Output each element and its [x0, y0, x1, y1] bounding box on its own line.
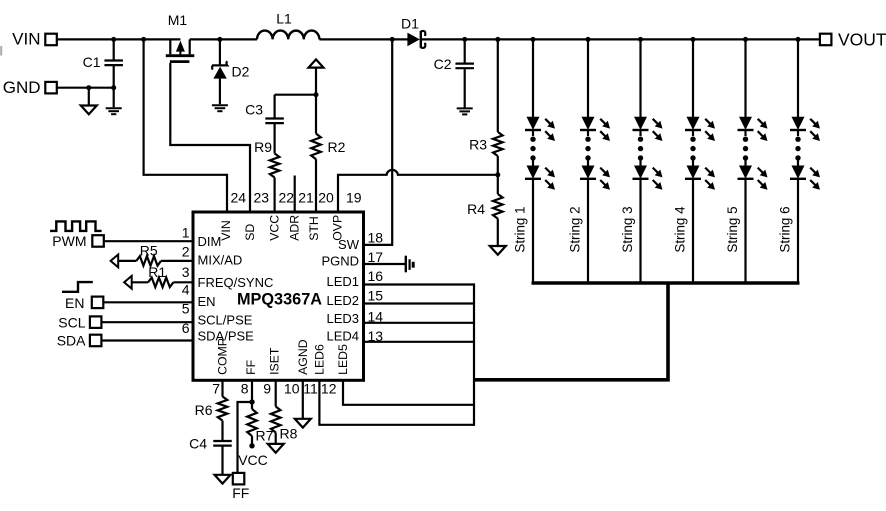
- svg-text:12: 12: [321, 380, 337, 396]
- svg-text:R5: R5: [140, 242, 158, 258]
- svg-text:String 5: String 5: [725, 206, 740, 252]
- LED string 1: [532, 39, 534, 117]
- svg-text:ADR: ADR: [288, 215, 302, 241]
- svg-text:LED5: LED5: [336, 344, 350, 375]
- ground: [295, 419, 311, 428]
- svg-text:String 6: String 6: [778, 206, 793, 252]
- svg-text:4: 4: [182, 282, 190, 298]
- svg-text:PWM: PWM: [52, 233, 86, 249]
- ground: [457, 107, 473, 109]
- wire LED2: [363, 302, 475, 304]
- svg-text:8: 8: [241, 380, 249, 396]
- wire LED3: [363, 322, 475, 324]
- svg-text:R2: R2: [328, 139, 346, 155]
- wire bus: [473, 283, 475, 426]
- wire: [103, 301, 193, 303]
- PWM waveform: [50, 221, 102, 231]
- wire: [251, 382, 253, 410]
- svg-text:D1: D1: [401, 16, 419, 32]
- svg-text:10: 10: [284, 380, 300, 396]
- svg-text:17: 17: [368, 249, 384, 265]
- LED string 3: [639, 39, 641, 117]
- op-amp U1 MPQ3367A: [193, 212, 364, 380]
- svg-text:R6: R6: [195, 402, 213, 418]
- svg-text:M1: M1: [168, 12, 188, 28]
- node: [111, 37, 116, 42]
- wire: [57, 87, 114, 89]
- svg-text:R9: R9: [254, 139, 272, 155]
- wire: [170, 63, 250, 211]
- node: [86, 85, 91, 90]
- node: [249, 443, 254, 448]
- svg-text:22: 22: [279, 190, 295, 206]
- svg-text:19: 19: [346, 190, 362, 206]
- wire LED6: [319, 382, 474, 425]
- port VOUT: [820, 34, 832, 46]
- svg-text:LED1: LED1: [326, 274, 359, 289]
- svg-text:18: 18: [368, 230, 384, 246]
- svg-text:FREQ/SYNC: FREQ/SYNC: [198, 275, 274, 290]
- svg-text:LED6: LED6: [312, 344, 326, 375]
- svg-text:3: 3: [182, 264, 190, 280]
- svg-text:R4: R4: [467, 201, 485, 217]
- svg-text:AGND: AGND: [296, 339, 310, 375]
- svg-text:L1: L1: [276, 11, 292, 27]
- svg-text:PGND: PGND: [321, 254, 359, 269]
- wire: [101, 321, 193, 323]
- wire: [161, 260, 193, 262]
- node: [314, 92, 319, 97]
- svg-text:C1: C1: [83, 54, 101, 70]
- svg-text:LED3: LED3: [326, 311, 359, 326]
- wire thick return: [474, 283, 668, 380]
- svg-text:23: 23: [254, 190, 270, 206]
- LED string 2: [587, 39, 589, 117]
- svg-text:String 2: String 2: [568, 206, 583, 252]
- svg-text:C4: C4: [189, 436, 207, 452]
- node: [691, 37, 696, 42]
- svg-text:String 3: String 3: [620, 206, 635, 252]
- port FF: [233, 473, 245, 485]
- svg-text:FF: FF: [244, 359, 258, 375]
- svg-text:1: 1: [182, 225, 190, 241]
- svg-text:String 1: String 1: [513, 206, 528, 252]
- svg-text:VCC: VCC: [267, 215, 281, 241]
- svg-text:D2: D2: [232, 64, 250, 80]
- svg-text:VIN: VIN: [12, 30, 40, 49]
- svg-text:2: 2: [182, 244, 190, 260]
- svg-text:SW: SW: [338, 237, 360, 252]
- LED string 6: [797, 39, 799, 117]
- svg-text:STH: STH: [307, 216, 321, 241]
- ground: [268, 444, 284, 453]
- svg-text:C3: C3: [245, 102, 263, 118]
- wire: [57, 38, 181, 40]
- svg-text:21: 21: [298, 190, 314, 206]
- wire: [132, 281, 148, 283]
- svg-text:MIX/AD: MIX/AD: [198, 253, 243, 268]
- wire: [238, 402, 253, 473]
- wire: [101, 339, 193, 341]
- svg-text:VCC: VCC: [238, 452, 268, 468]
- ground: [215, 475, 231, 484]
- svg-text:COMP: COMP: [216, 338, 230, 375]
- ground PGND: [405, 256, 407, 273]
- svg-text:SDA: SDA: [57, 333, 86, 349]
- wire: [422, 38, 820, 40]
- decor: [0, 46, 2, 56]
- wire LED4: [363, 341, 475, 343]
- ground: [106, 107, 122, 109]
- wire: [294, 176, 296, 211]
- wire: [118, 260, 136, 262]
- svg-text:15: 15: [368, 287, 384, 303]
- node: [217, 37, 222, 42]
- svg-text:24: 24: [231, 190, 247, 206]
- svg-text:LED4: LED4: [326, 329, 359, 344]
- wire: [363, 39, 393, 245]
- svg-text:GND: GND: [3, 78, 41, 97]
- node: [495, 37, 500, 42]
- svg-text:16: 16: [368, 268, 384, 284]
- LED string 4: [692, 39, 694, 117]
- wire: [319, 38, 408, 40]
- EN waveform: [62, 282, 93, 292]
- arrow: [111, 255, 119, 268]
- svg-text:7: 7: [212, 380, 220, 396]
- svg-text:R8: R8: [280, 426, 298, 442]
- wire: [338, 170, 498, 211]
- svg-text:MPQ3367A: MPQ3367A: [237, 290, 322, 308]
- svg-text:SD: SD: [243, 224, 257, 241]
- node: [586, 37, 591, 42]
- svg-text:DIM: DIM: [198, 234, 222, 249]
- node: [495, 172, 500, 177]
- node: [390, 37, 395, 42]
- wire: [104, 240, 193, 242]
- svg-text:C2: C2: [434, 56, 452, 72]
- svg-text:ISET: ISET: [267, 347, 281, 375]
- svg-text:11: 11: [303, 380, 318, 396]
- node: [249, 399, 254, 404]
- wire LED5: [343, 382, 474, 405]
- arrow: [124, 276, 132, 289]
- arrow up: [315, 68, 317, 95]
- svg-text:9: 9: [263, 380, 271, 396]
- wire string bus: [532, 281, 800, 285]
- wire LED1: [363, 283, 475, 285]
- svg-text:FF: FF: [232, 485, 249, 501]
- node: [531, 37, 536, 42]
- ground: [490, 246, 506, 255]
- svg-text:SCL: SCL: [58, 314, 85, 330]
- svg-text:LED2: LED2: [326, 293, 359, 308]
- wire: [144, 39, 227, 210]
- node: [462, 37, 467, 42]
- ground: [212, 104, 228, 106]
- wire: [173, 281, 193, 283]
- wire: [302, 382, 304, 419]
- node: [141, 37, 146, 42]
- svg-text:EN: EN: [198, 294, 216, 309]
- svg-text:R3: R3: [469, 137, 487, 153]
- svg-text:SCL/PSE: SCL/PSE: [198, 313, 253, 328]
- wire: [363, 263, 406, 265]
- LED string 5: [744, 39, 746, 117]
- node: [796, 37, 801, 42]
- svg-text:20: 20: [318, 190, 334, 206]
- svg-text:VOUT: VOUT: [838, 30, 886, 50]
- node: [638, 37, 643, 42]
- node: [743, 37, 748, 42]
- svg-text:String 4: String 4: [673, 206, 688, 253]
- ground: [88, 88, 90, 106]
- svg-text:EN: EN: [65, 295, 84, 311]
